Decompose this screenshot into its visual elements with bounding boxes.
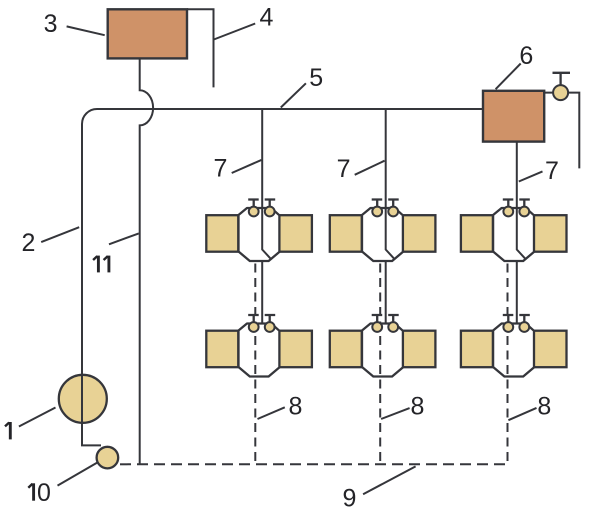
svg-text:8: 8: [537, 393, 551, 421]
svg-text:0: 0: [37, 479, 51, 507]
svg-text:6: 6: [519, 42, 533, 70]
svg-text:4: 4: [260, 4, 274, 32]
svg-text:2: 2: [21, 229, 35, 257]
svg-text:8: 8: [410, 392, 424, 420]
svg-text:7: 7: [337, 155, 351, 183]
svg-text:3: 3: [44, 10, 58, 38]
svg-text:8: 8: [288, 392, 302, 420]
svg-text:7: 7: [545, 157, 559, 185]
svg-text:7: 7: [214, 155, 228, 183]
svg-text:9: 9: [343, 485, 357, 513]
svg-text:5: 5: [309, 64, 323, 92]
